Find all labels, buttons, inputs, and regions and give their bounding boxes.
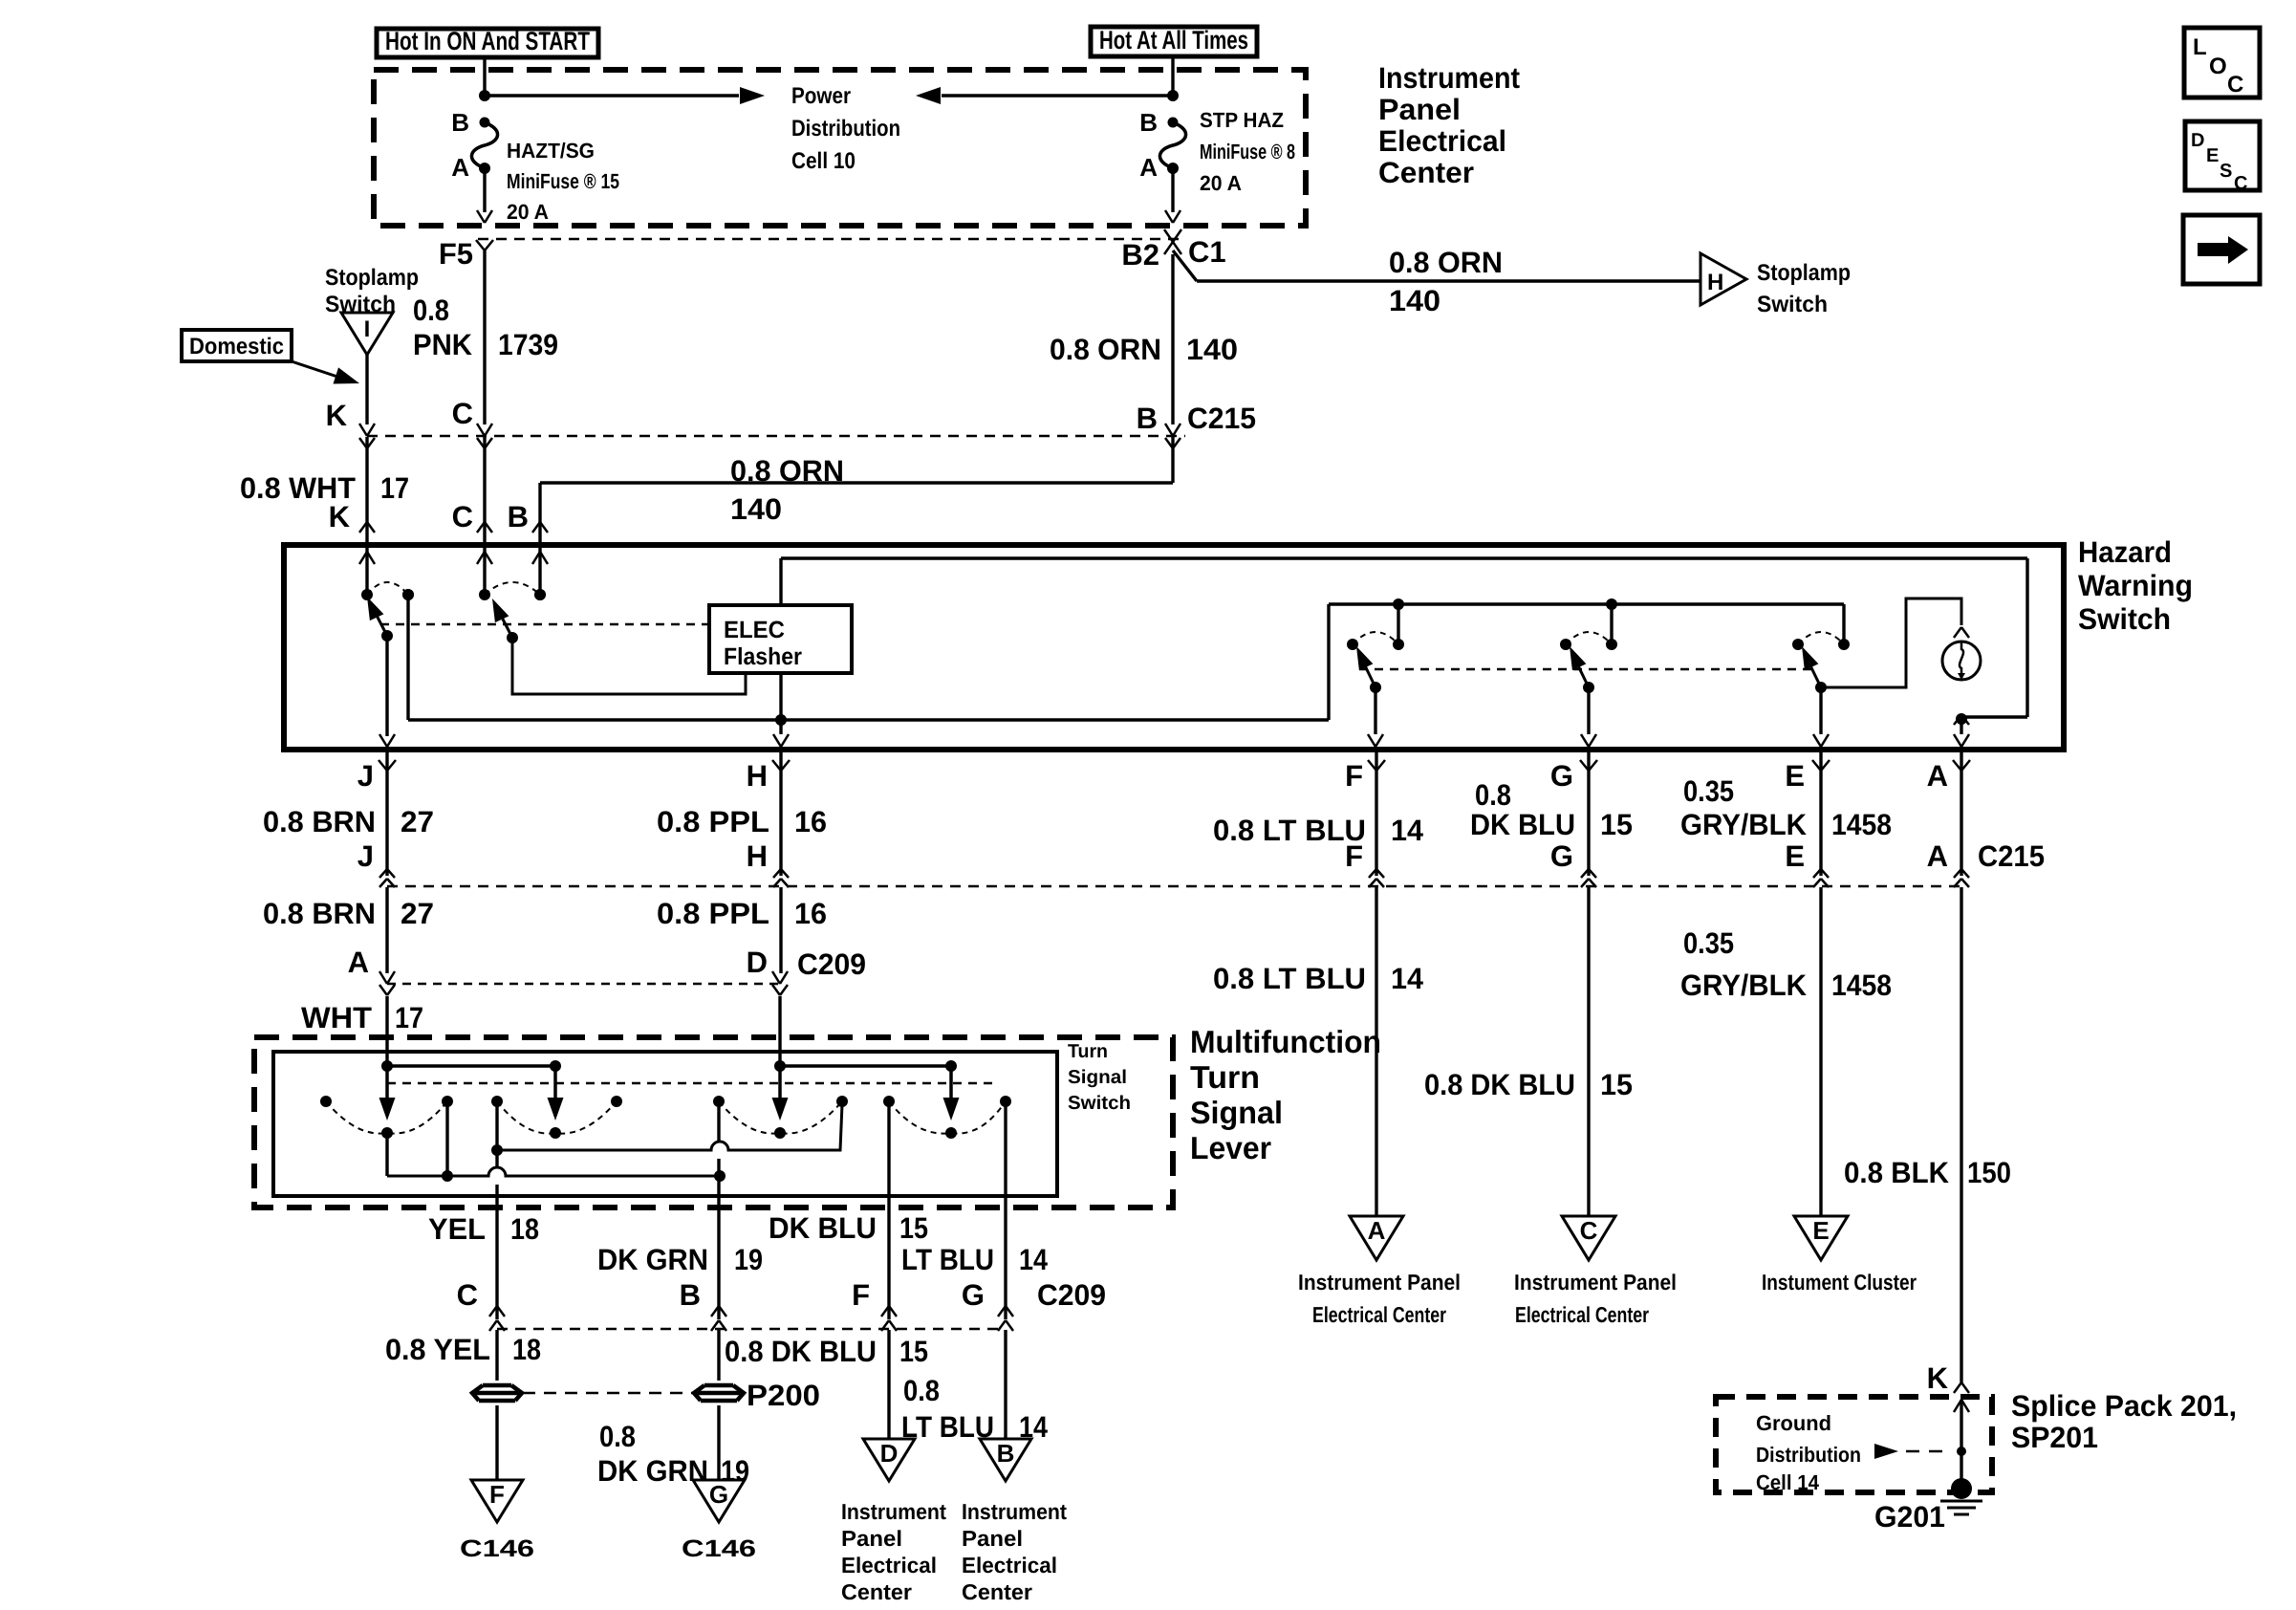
svg-text:C146: C146 (682, 1535, 756, 1562)
svg-text:C: C (2234, 173, 2247, 194)
svg-text:Hot At All Times: Hot At All Times (1099, 26, 1248, 54)
svg-text:Center: Center (962, 1579, 1032, 1604)
svg-text:H: H (1707, 270, 1723, 295)
svg-text:A: A (1368, 1216, 1386, 1245)
svg-text:B: B (1137, 402, 1158, 435)
svg-text:G: G (1550, 759, 1573, 793)
svg-text:Panel: Panel (1378, 93, 1461, 126)
svg-text:0.35: 0.35 (1683, 774, 1734, 808)
svg-text:Power: Power (791, 83, 851, 109)
svg-text:0.8 BLK: 0.8 BLK (1844, 1156, 1950, 1189)
svg-text:Turn: Turn (1190, 1059, 1260, 1095)
svg-text:Warning: Warning (2078, 569, 2193, 602)
svg-text:0.8: 0.8 (903, 1374, 940, 1407)
svg-text:0.8 PPL: 0.8 PPL (657, 897, 769, 930)
svg-text:C146: C146 (460, 1535, 534, 1562)
svg-text:F: F (1345, 839, 1363, 873)
svg-text:0.8 ORN: 0.8 ORN (730, 454, 844, 488)
svg-text:Stoplamp: Stoplamp (325, 265, 419, 291)
svg-text:Electrical: Electrical (962, 1553, 1057, 1577)
svg-text:C: C (2227, 72, 2243, 98)
svg-text:B: B (997, 1439, 1015, 1468)
svg-text:0.8 BRN: 0.8 BRN (263, 897, 376, 930)
svg-text:K: K (329, 500, 351, 533)
svg-text:0.8 DK BLU: 0.8 DK BLU (1424, 1068, 1575, 1101)
svg-text:0.8 PPL: 0.8 PPL (657, 805, 769, 838)
svg-text:0.8: 0.8 (599, 1420, 636, 1453)
svg-text:Hazard: Hazard (2078, 535, 2172, 569)
svg-text:16: 16 (794, 805, 827, 838)
svg-text:D: D (2191, 130, 2204, 151)
svg-text:150: 150 (1967, 1156, 2011, 1189)
svg-text:Multifunction: Multifunction (1190, 1024, 1381, 1059)
svg-text:140: 140 (1389, 284, 1440, 317)
svg-text:0.8 ORN: 0.8 ORN (1050, 333, 1161, 366)
svg-text:15: 15 (899, 1211, 928, 1245)
svg-text:0.8 ORN: 0.8 ORN (1389, 246, 1503, 279)
svg-text:Electrical Center: Electrical Center (1312, 1302, 1446, 1327)
svg-text:SP201: SP201 (2011, 1421, 2098, 1454)
svg-text:Cell 14: Cell 14 (1756, 1470, 1820, 1494)
svg-text:K: K (326, 399, 348, 432)
svg-text:Instument Cluster: Instument Cluster (1762, 1270, 1917, 1295)
svg-text:L: L (2193, 34, 2207, 60)
svg-text:LT BLU: LT BLU (901, 1243, 994, 1276)
svg-text:Instrument: Instrument (962, 1499, 1067, 1524)
svg-text:F: F (1345, 759, 1363, 793)
svg-text:18: 18 (510, 1212, 539, 1246)
svg-text:F: F (489, 1480, 505, 1509)
svg-text:HAZT/SG: HAZT/SG (507, 139, 595, 163)
svg-text:DK BLU: DK BLU (769, 1211, 877, 1245)
svg-text:B: B (1139, 108, 1158, 137)
svg-text:I: I (364, 316, 371, 342)
svg-text:0.8 YEL: 0.8 YEL (385, 1333, 490, 1366)
svg-text:Flasher: Flasher (724, 643, 802, 670)
svg-text:14: 14 (1391, 962, 1424, 995)
svg-text:Turn: Turn (1068, 1041, 1108, 1062)
svg-text:Panel: Panel (962, 1526, 1023, 1551)
svg-text:J: J (357, 759, 374, 793)
svg-text:27: 27 (401, 897, 434, 930)
svg-text:20 A: 20 A (1200, 171, 1242, 195)
svg-text:A: A (1927, 839, 1948, 873)
svg-text:DK BLU: DK BLU (1470, 808, 1575, 841)
svg-text:D: D (747, 946, 768, 979)
svg-text:Electrical Center: Electrical Center (1515, 1302, 1649, 1327)
svg-text:G: G (1550, 839, 1573, 873)
svg-text:0.8 LT BLU: 0.8 LT BLU (1213, 962, 1366, 995)
svg-text:Distribution: Distribution (1756, 1443, 1861, 1467)
svg-text:WHT: WHT (301, 1001, 372, 1034)
svg-text:Switch: Switch (1068, 1093, 1131, 1114)
svg-text:17: 17 (395, 1001, 423, 1034)
svg-text:18: 18 (512, 1333, 541, 1366)
svg-text:C209: C209 (1037, 1278, 1106, 1312)
svg-text:27: 27 (401, 805, 434, 838)
svg-text:F5: F5 (439, 237, 473, 271)
svg-text:19: 19 (734, 1243, 763, 1276)
svg-text:E: E (1812, 1216, 1829, 1245)
svg-text:14: 14 (1019, 1243, 1049, 1276)
svg-text:E: E (1785, 839, 1805, 873)
svg-text:0.8: 0.8 (1475, 778, 1511, 812)
svg-text:140: 140 (730, 492, 782, 526)
svg-text:Hot In ON And START: Hot In ON And START (385, 27, 590, 55)
svg-text:Panel: Panel (841, 1526, 902, 1551)
svg-text:Center: Center (841, 1579, 912, 1604)
svg-text:Cell 10: Cell 10 (791, 148, 856, 174)
svg-text:1458: 1458 (1831, 808, 1892, 841)
svg-text:E: E (2206, 145, 2219, 166)
svg-text:0.8 BRN: 0.8 BRN (263, 805, 376, 838)
svg-text:16: 16 (794, 897, 827, 930)
svg-text:1739: 1739 (498, 328, 558, 361)
svg-text:Electrical: Electrical (841, 1553, 937, 1577)
svg-text:DK GRN: DK GRN (597, 1454, 708, 1488)
svg-text:C: C (457, 1278, 478, 1312)
svg-text:B: B (451, 108, 469, 137)
svg-text:1458: 1458 (1831, 968, 1892, 1002)
svg-text:Stoplamp: Stoplamp (1757, 260, 1851, 286)
svg-text:MiniFuse ® 15: MiniFuse ® 15 (507, 169, 619, 193)
svg-text:15: 15 (899, 1335, 928, 1368)
svg-text:Instrument Panel: Instrument Panel (1298, 1270, 1461, 1295)
svg-text:140: 140 (1186, 333, 1238, 366)
svg-text:C215: C215 (1187, 402, 1256, 435)
svg-text:D: D (880, 1439, 899, 1468)
svg-text:GRY/BLK: GRY/BLK (1680, 968, 1808, 1002)
svg-text:G: G (962, 1278, 985, 1312)
svg-text:ELEC: ELEC (724, 617, 785, 643)
svg-text:0.35: 0.35 (1683, 926, 1734, 960)
svg-text:K: K (1927, 1361, 1949, 1395)
svg-text:O: O (2209, 54, 2227, 79)
svg-text:Ground: Ground (1756, 1411, 1831, 1435)
svg-text:0.8 LT BLU: 0.8 LT BLU (1213, 814, 1366, 847)
svg-text:0.8 DK BLU: 0.8 DK BLU (725, 1335, 877, 1368)
svg-text:H: H (747, 839, 768, 873)
svg-text:C: C (1580, 1216, 1598, 1245)
svg-text:Splice Pack 201,: Splice Pack 201, (2011, 1389, 2237, 1423)
svg-text:B: B (680, 1278, 701, 1312)
svg-text:C: C (452, 397, 473, 430)
svg-text:P200: P200 (747, 1379, 820, 1412)
svg-text:C209: C209 (797, 947, 866, 981)
svg-text:0.8: 0.8 (413, 294, 449, 327)
svg-text:A: A (348, 946, 369, 979)
svg-text:G: G (709, 1480, 728, 1509)
svg-text:Signal: Signal (1068, 1067, 1127, 1088)
svg-text:Electrical: Electrical (1378, 124, 1506, 158)
svg-text:C215: C215 (1978, 839, 2045, 873)
svg-text:H: H (747, 759, 768, 793)
svg-text:YEL: YEL (428, 1212, 486, 1246)
svg-text:F: F (852, 1278, 870, 1312)
svg-text:15: 15 (1600, 808, 1633, 841)
svg-text:B2: B2 (1121, 238, 1159, 272)
svg-text:DK GRN: DK GRN (597, 1243, 708, 1276)
svg-text:Instrument Panel: Instrument Panel (1514, 1270, 1677, 1295)
svg-text:C: C (452, 500, 473, 533)
svg-text:Center: Center (1378, 156, 1474, 189)
svg-text:PNK: PNK (413, 328, 473, 361)
svg-text:S: S (2220, 161, 2232, 182)
svg-text:Signal: Signal (1190, 1095, 1283, 1130)
svg-text:A: A (451, 153, 469, 182)
svg-text:J: J (357, 839, 374, 873)
svg-text:15: 15 (1600, 1068, 1633, 1101)
svg-text:20 A: 20 A (507, 200, 549, 224)
svg-text:Switch: Switch (1757, 292, 1828, 317)
svg-text:Switch: Switch (2078, 602, 2171, 636)
svg-text:C1: C1 (1188, 235, 1226, 269)
svg-text:GRY/BLK: GRY/BLK (1680, 808, 1808, 841)
svg-text:Lever: Lever (1190, 1130, 1271, 1165)
svg-text:Instrument: Instrument (841, 1499, 946, 1524)
svg-text:Domestic: Domestic (189, 334, 284, 359)
svg-text:17: 17 (380, 471, 409, 505)
svg-text:A: A (1139, 153, 1158, 182)
svg-text:G201: G201 (1874, 1500, 1945, 1534)
svg-text:STP HAZ: STP HAZ (1200, 108, 1284, 132)
svg-text:Instrument: Instrument (1378, 61, 1520, 95)
svg-text:MiniFuse ® 8: MiniFuse ® 8 (1200, 140, 1295, 163)
svg-text:E: E (1785, 759, 1805, 793)
svg-text:Distribution: Distribution (791, 116, 900, 141)
svg-text:14: 14 (1391, 814, 1424, 847)
svg-text:A: A (1927, 759, 1948, 793)
svg-text:B: B (508, 500, 529, 533)
